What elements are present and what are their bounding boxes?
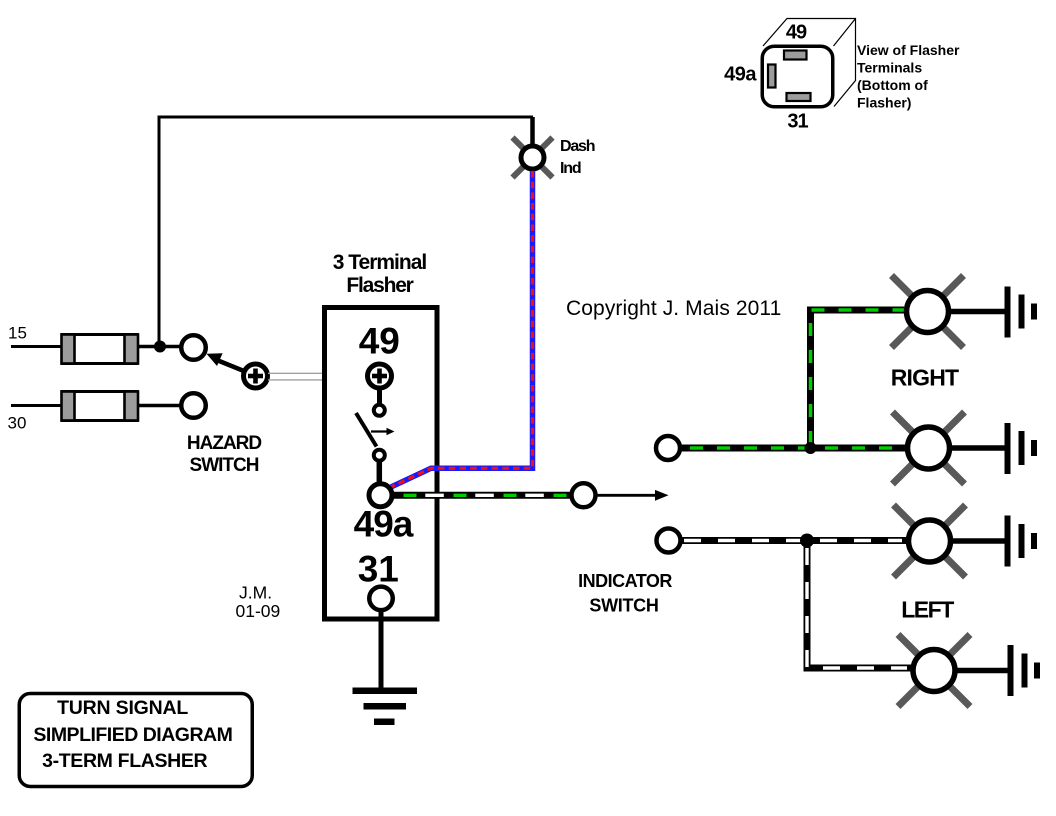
svg-text:49a: 49a — [724, 64, 757, 86]
svg-text:View of Flasher: View of Flasher — [857, 42, 960, 58]
wire: 49a output green/white striped to indicator switch — [392, 492, 570, 499]
svg-text:3-TERM FLASHER: 3-TERM FLASHER — [42, 750, 207, 772]
wire lower contact to 49a — [377, 461, 383, 483]
svg-text:(Bottom of: (Bottom of — [857, 77, 928, 93]
svg-text:HAZARD: HAZARD — [187, 433, 261, 454]
lamp left-rear bulb — [913, 650, 955, 692]
flasher internal contact lower — [374, 450, 385, 461]
lamp DASH IND bulb — [521, 146, 544, 169]
wire lamp left-front to ground — [942, 538, 1005, 544]
hazard switch contact upper — [181, 335, 206, 360]
wire: white jumper hazard plus to flasher plus — [268, 373, 367, 380]
wire lamp left-rear to ground — [946, 668, 1008, 674]
junction left circuit — [800, 534, 814, 548]
lamp left-rear rays — [898, 635, 970, 707]
title box — [19, 694, 252, 787]
wire: top feed from terminal 15 junction to dash indicator — [159, 117, 533, 346]
wire fuse F30 to hazard switch — [139, 404, 181, 408]
svg-text:3 Terminal: 3 Terminal — [333, 251, 427, 274]
flasher terminal 31 — [369, 587, 393, 611]
lamp left-front rays — [894, 505, 966, 577]
wire fuse F15 to hazard switch — [139, 345, 182, 349]
fuse F30 lead wire — [11, 404, 61, 407]
hazard switch actuator arrow — [207, 353, 251, 373]
lamp right-rear bulb — [908, 427, 950, 469]
svg-text:RIGHT: RIGHT — [891, 365, 959, 391]
flasher plus terminal pin 49 — [368, 364, 392, 388]
title text — [33, 697, 232, 772]
ground right-front — [1005, 287, 1038, 338]
ground left-rear — [1008, 645, 1041, 696]
label J.M. 01-09 — [236, 583, 281, 622]
svg-text:15: 15 — [8, 324, 27, 343]
label 3 Terminal Flasher — [333, 251, 427, 297]
junction right circuit — [805, 442, 817, 454]
ground right-rear — [1005, 423, 1038, 474]
svg-text:31: 31 — [787, 111, 808, 133]
svg-text:TURN SIGNAL: TURN SIGNAL — [57, 697, 188, 719]
wire: left circuit dropper white dashed — [807, 541, 911, 669]
lamp left-front bulb — [909, 520, 951, 562]
flasher switch blade — [356, 413, 377, 447]
label view caption — [857, 42, 960, 111]
lamp right-rear rays — [893, 412, 965, 484]
flasher bottom-view pin 49a — [768, 65, 776, 88]
flasher bottom-view outline — [762, 46, 833, 107]
junction dot at fuse 15 — [154, 341, 166, 353]
flasher U1 box — [325, 308, 438, 620]
wire plus to upper contact — [377, 390, 382, 404]
ground under flasher — [353, 688, 418, 726]
fuse F15 lead wire — [11, 345, 61, 348]
flasher blade motion arrow — [371, 428, 395, 436]
svg-text:01-09: 01-09 — [236, 601, 281, 621]
svg-text:30: 30 — [8, 414, 27, 433]
svg-text:Terminals: Terminals — [857, 60, 922, 76]
indicator switch left terminal — [657, 529, 681, 553]
flasher bottom-view pin 31 — [787, 93, 811, 101]
svg-text:49a: 49a — [354, 503, 414, 544]
hazard switch contact lower — [181, 393, 206, 418]
svg-text:Flasher: Flasher — [346, 274, 413, 297]
svg-text:LEFT: LEFT — [901, 597, 954, 623]
ground left-front — [1005, 516, 1038, 567]
wire lamp right-rear to ground — [941, 445, 1005, 451]
indicator switch right terminal — [656, 436, 680, 460]
svg-text:Flasher): Flasher) — [857, 95, 911, 111]
hazard plus terminal — [244, 364, 268, 388]
label HAZARD SWITCH — [187, 433, 261, 476]
wire: left circuit horizontal white dashed — [683, 537, 907, 544]
wire: right circuit riser green dashed — [811, 310, 905, 448]
svg-text:31: 31 — [358, 549, 399, 590]
indicator switch input terminal — [572, 483, 596, 507]
wire lamp right-front to ground — [940, 309, 1005, 315]
svg-text:Copyright J. Mais 2011: Copyright J. Mais 2011 — [566, 297, 781, 320]
flasher bottom-view perspective lines — [763, 19, 856, 107]
svg-text:49: 49 — [786, 22, 807, 44]
lamp right-front rays — [892, 276, 964, 348]
lamp right-front bulb — [907, 291, 949, 333]
svg-text:SIMPLIFIED DIAGRAM: SIMPLIFIED DIAGRAM — [33, 724, 232, 746]
indicator switch selector arrow — [598, 490, 669, 501]
svg-text:Ind: Ind — [560, 160, 581, 177]
fuse F15 body — [62, 335, 139, 364]
svg-text:SWITCH: SWITCH — [589, 596, 658, 616]
svg-text:Dash: Dash — [560, 138, 595, 155]
svg-text:INDICATOR: INDICATOR — [578, 571, 672, 591]
svg-text:J.M.: J.M. — [239, 583, 272, 603]
svg-text:49: 49 — [359, 321, 400, 362]
fuse F30 body — [62, 392, 139, 421]
label Dash Ind — [560, 138, 595, 177]
flasher terminal 49a — [369, 484, 392, 507]
svg-text:SWITCH: SWITCH — [190, 455, 259, 476]
wire: right circuit horizontal green dashed — [682, 445, 905, 452]
flasher internal contact upper — [374, 405, 385, 416]
wire: blue/red dash-indicator feed — [391, 171, 533, 487]
wire 31 to ground — [379, 609, 384, 689]
lamp DASH IND rays — [513, 138, 553, 178]
label INDICATOR SWITCH — [578, 571, 672, 616]
flasher bottom-view pin 49 — [784, 51, 807, 60]
